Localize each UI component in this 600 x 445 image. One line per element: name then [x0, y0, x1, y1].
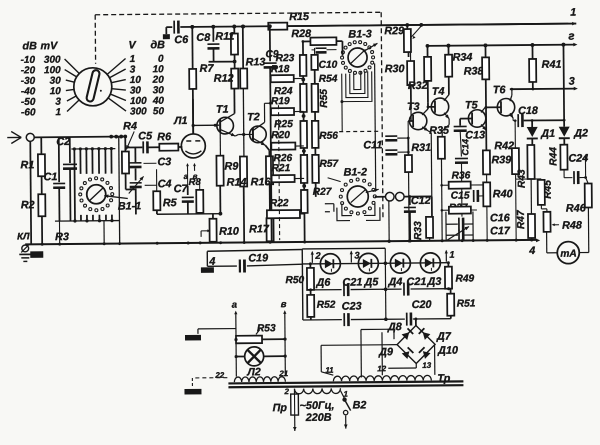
svg-text:1: 1: [449, 250, 454, 261]
svg-text:R20: R20: [271, 130, 290, 141]
svg-text:22: 22: [214, 371, 225, 380]
svg-text:Т3: Т3: [407, 101, 420, 113]
svg-text:C1: C1: [44, 171, 58, 183]
svg-text:Л2: Л2: [246, 366, 261, 378]
svg-text:C10: C10: [319, 60, 338, 71]
svg-text:R11: R11: [215, 31, 234, 43]
svg-text:-60: -60: [21, 107, 36, 118]
svg-text:R41: R41: [542, 59, 562, 71]
svg-text:Д3: Д3: [426, 276, 441, 288]
svg-text:Т4: Т4: [432, 86, 445, 98]
svg-text:Д10: Д10: [437, 345, 458, 357]
svg-text:R23: R23: [276, 53, 295, 64]
svg-text:Д6: Д6: [315, 277, 331, 289]
svg-text:C7: C7: [174, 183, 189, 195]
svg-text:R35: R35: [429, 125, 450, 137]
svg-text:C4: C4: [158, 178, 172, 190]
svg-text:C5: C5: [138, 130, 153, 142]
svg-text:R46: R46: [566, 202, 587, 214]
svg-text:R2: R2: [21, 199, 35, 211]
svg-text:R28: R28: [291, 28, 311, 40]
svg-text:R48: R48: [562, 220, 582, 232]
svg-text:R56: R56: [319, 131, 338, 142]
svg-text:C15: C15: [451, 191, 470, 202]
svg-text:4: 4: [528, 245, 535, 257]
svg-text:R4: R4: [123, 120, 137, 132]
svg-text:3: 3: [569, 76, 575, 88]
svg-text:R1: R1: [20, 159, 34, 171]
svg-text:dB: dB: [22, 40, 37, 52]
svg-text:R15: R15: [289, 11, 310, 23]
svg-text:0: 0: [158, 54, 164, 65]
svg-text:R49: R49: [455, 273, 474, 284]
svg-text:Т1: Т1: [216, 104, 229, 116]
svg-text:R16: R16: [251, 176, 272, 188]
svg-text:13: 13: [422, 361, 432, 370]
svg-text:Тр: Тр: [437, 373, 450, 385]
svg-text:R43: R43: [517, 169, 528, 188]
svg-text:R19: R19: [271, 96, 290, 107]
svg-text:R39: R39: [491, 154, 511, 166]
svg-text:R21: R21: [271, 163, 290, 174]
svg-text:3: 3: [130, 64, 136, 75]
svg-text:C16: C16: [490, 212, 511, 224]
svg-text:C8: C8: [196, 32, 210, 44]
svg-text:R34: R34: [453, 51, 473, 63]
svg-text:100: 100: [130, 96, 147, 107]
svg-text:Д4: Д4: [387, 276, 402, 288]
svg-text:R7: R7: [200, 63, 215, 75]
svg-text:Пр: Пр: [273, 402, 288, 414]
svg-text:11: 11: [325, 366, 334, 375]
svg-text:300: 300: [44, 55, 61, 66]
svg-text:10: 10: [50, 86, 62, 97]
svg-text:1: 1: [55, 107, 61, 118]
svg-text:C12: C12: [411, 195, 431, 207]
svg-text:C17: C17: [490, 225, 511, 237]
svg-text:C11: C11: [363, 139, 382, 151]
svg-text:50: 50: [153, 106, 165, 117]
svg-text:R10: R10: [219, 226, 239, 238]
svg-text:В1-1: В1-1: [118, 200, 142, 212]
svg-text:10: 10: [130, 75, 142, 86]
svg-text:R54: R54: [319, 74, 338, 85]
svg-text:Д5: Д5: [363, 276, 379, 288]
svg-text:300: 300: [130, 106, 147, 117]
svg-text:C14: C14: [460, 139, 470, 156]
svg-text:-40: -40: [21, 86, 36, 97]
svg-text:R40: R40: [493, 188, 513, 200]
svg-text:R50: R50: [285, 275, 304, 286]
svg-text:21: 21: [278, 369, 289, 378]
svg-text:R55: R55: [319, 89, 330, 108]
svg-text:~50Гц,: ~50Гц,: [300, 400, 335, 412]
svg-text:2: 2: [283, 387, 289, 396]
svg-text:дВ: дВ: [150, 39, 165, 51]
svg-text:R30: R30: [385, 63, 405, 75]
svg-text:10: 10: [152, 64, 164, 75]
svg-text:R31: R31: [411, 142, 431, 154]
svg-text:R33: R33: [413, 221, 424, 240]
svg-text:а: а: [232, 300, 237, 311]
svg-text:R3: R3: [55, 231, 69, 243]
svg-text:C20: C20: [412, 299, 432, 311]
svg-text:КЛ: КЛ: [17, 231, 30, 242]
svg-text:R17: R17: [249, 223, 270, 235]
svg-text:C3: C3: [157, 156, 171, 168]
svg-text:40: 40: [152, 96, 165, 107]
svg-text:R18: R18: [271, 64, 290, 75]
svg-text:Д9: Д9: [378, 346, 393, 358]
svg-text:C6: C6: [174, 34, 189, 46]
svg-text:R38: R38: [464, 65, 484, 77]
svg-text:Д2: Д2: [573, 127, 588, 139]
svg-text:1: 1: [570, 7, 576, 19]
svg-text:R27: R27: [313, 187, 333, 198]
svg-text:В1-2: В1-2: [344, 166, 368, 178]
svg-text:V: V: [128, 39, 136, 51]
svg-text:-50: -50: [21, 97, 36, 108]
svg-text:В1-3: В1-3: [348, 28, 372, 40]
svg-text:в: в: [281, 299, 287, 310]
svg-text:mV: mV: [40, 40, 58, 52]
svg-text:R6: R6: [157, 131, 172, 143]
svg-text:1: 1: [130, 54, 136, 65]
svg-text:100: 100: [44, 65, 61, 76]
svg-text:30: 30: [130, 85, 142, 96]
svg-text:Д1: Д1: [540, 128, 555, 140]
svg-text:30: 30: [153, 85, 165, 96]
svg-text:R25: R25: [274, 119, 293, 130]
svg-text:В2: В2: [353, 399, 367, 411]
svg-text:C19: C19: [248, 252, 268, 264]
svg-text:Л1: Л1: [173, 115, 188, 127]
svg-text:-10: -10: [21, 55, 36, 66]
svg-text:R47: R47: [516, 209, 527, 229]
svg-text:30: 30: [50, 76, 62, 87]
svg-text:Д7: Д7: [436, 331, 452, 343]
svg-text:220В: 220В: [305, 412, 332, 424]
svg-text:в: в: [193, 172, 198, 181]
svg-text:C23: C23: [342, 300, 362, 312]
svg-text:R9: R9: [224, 161, 238, 173]
svg-text:3: 3: [55, 97, 61, 108]
svg-text:mA: mA: [560, 249, 577, 260]
svg-text:C18: C18: [518, 105, 538, 117]
svg-text:Т2: Т2: [247, 111, 260, 123]
svg-text:г: г: [568, 31, 574, 43]
svg-text:R36: R36: [452, 171, 471, 182]
svg-text:R44: R44: [548, 147, 559, 166]
svg-text:R29: R29: [384, 25, 404, 37]
svg-text:20: 20: [152, 75, 165, 86]
svg-text:R5: R5: [163, 197, 178, 209]
svg-text:Т6: Т6: [493, 84, 507, 96]
svg-text:R12: R12: [214, 73, 234, 85]
svg-text:R57: R57: [319, 159, 339, 170]
svg-text:-30: -30: [21, 76, 36, 87]
svg-text:C21: C21: [342, 276, 362, 288]
svg-text:R52: R52: [317, 300, 336, 311]
svg-text:R13: R13: [246, 56, 266, 68]
svg-text:-20: -20: [21, 65, 36, 76]
svg-text:R53: R53: [257, 323, 276, 334]
svg-text:R51: R51: [457, 298, 476, 309]
